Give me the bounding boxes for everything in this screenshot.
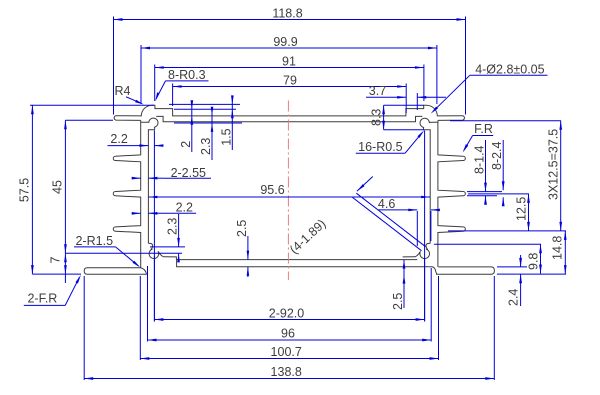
dimension 4.6 extension lines bbox=[417, 211, 431, 246]
svg-text:2.3: 2.3 bbox=[199, 138, 213, 155]
dimension 12.5 bbox=[515, 194, 530, 231]
svg-text:2-F.R: 2-F.R bbox=[27, 292, 57, 306]
dimension 4.6 bbox=[378, 197, 440, 211]
dimension 9.8 bbox=[527, 244, 542, 273]
dimension (4-1.89) diagonal leader bbox=[287, 177, 426, 257]
dimension 8-2.4 bbox=[490, 140, 504, 206]
dimension 79 extension lines bbox=[173, 84, 407, 114]
extension line left lip to 2-92 dimension bbox=[153, 131, 155, 322]
dimension 2.3 lower extension line bbox=[150, 246, 185, 248]
svg-text:F.R: F.R bbox=[474, 122, 493, 136]
dimension 3.7 extension line bbox=[416, 93, 418, 110]
svg-text:118.8: 118.8 bbox=[272, 7, 302, 21]
svg-text:16-R0.5: 16-R0.5 bbox=[358, 140, 403, 154]
left screw boss C-notch and wall inner face bbox=[141, 118, 158, 243]
svg-text:8-2.4: 8-2.4 bbox=[490, 141, 504, 170]
right bottom hook with ball and plate ledge bbox=[403, 243, 431, 258]
label 4-dia 2.8 with leader bbox=[431, 62, 548, 114]
svg-text:3.7: 3.7 bbox=[369, 84, 386, 98]
dimension 3X12.5=37.5 extension lines bbox=[448, 121, 566, 231]
dimension 2.5 right bbox=[391, 260, 405, 310]
svg-text:4.6: 4.6 bbox=[378, 197, 395, 211]
dimension 1.5 bbox=[220, 95, 234, 150]
vertical centerline bbox=[287, 101, 289, 281]
svg-text:9.8: 9.8 bbox=[527, 253, 541, 270]
svg-text:8-R0.3: 8-R0.3 bbox=[168, 68, 206, 82]
dimension 45 extension lines bbox=[65, 120, 182, 253]
dimension 96 extension lines bbox=[148, 266, 432, 342]
profile top wall inner surface with jogs bbox=[156, 116, 422, 121]
dimension 91 bbox=[155, 55, 424, 69]
dimension 8.3 extension lines bbox=[384, 105, 424, 130]
dimension 8-1.4 extension lines bbox=[467, 192, 502, 196]
dimension 57.5 bbox=[17, 105, 33, 274]
label F.R with leader bbox=[463, 122, 494, 153]
svg-text:2.4: 2.4 bbox=[507, 289, 521, 306]
svg-text:7: 7 bbox=[48, 256, 62, 263]
bottom plate bbox=[177, 260, 437, 274]
svg-text:14.8: 14.8 bbox=[550, 236, 564, 260]
svg-text:79: 79 bbox=[283, 74, 297, 88]
dimension 95.6 bbox=[148, 183, 430, 198]
dimension 2-2.55 bbox=[132, 166, 211, 180]
extension line from wall inner surface bbox=[174, 122, 242, 124]
dimension 2.5 center bbox=[235, 220, 249, 277]
dimension 100.7 extension lines bbox=[140, 276, 438, 360]
svg-text:2.5: 2.5 bbox=[391, 293, 405, 310]
extension line from corner step bbox=[174, 108, 236, 110]
left bottom flange bbox=[84, 268, 146, 275]
dimension 9.8 extension line bbox=[434, 243, 541, 245]
svg-text:138.8: 138.8 bbox=[271, 365, 302, 379]
svg-text:2.5: 2.5 bbox=[235, 220, 249, 237]
dimension 2.2 lower-left bbox=[132, 201, 196, 215]
svg-text:3X12.5=37.5: 3X12.5=37.5 bbox=[547, 129, 561, 200]
dimension 2.2 upper-left bbox=[108, 132, 164, 147]
dimension 91 extension lines bbox=[155, 65, 424, 102]
svg-text:2.3: 2.3 bbox=[166, 218, 180, 235]
profile top wall with corner ridges and side tongues bbox=[114, 105, 464, 120]
svg-text:95.6: 95.6 bbox=[260, 183, 284, 197]
dimension 2-92.0 bbox=[154, 307, 424, 321]
label 2-R1.5 with leader bbox=[74, 234, 140, 267]
svg-text:4-Ø2.8±0.05: 4-Ø2.8±0.05 bbox=[475, 62, 544, 76]
svg-text:57.5: 57.5 bbox=[17, 178, 31, 202]
dimension 2.4 bbox=[507, 255, 522, 306]
label R4 with leader bbox=[115, 84, 144, 105]
profile right wall with 3 heatsink fins and right bottom flange bbox=[438, 120, 465, 267]
dimension 14.8 extension line bbox=[497, 273, 566, 275]
dimension 99.9 extension lines bbox=[141, 45, 437, 104]
dimension 138.8 extension lines bbox=[84, 276, 494, 380]
dimension 99.9 bbox=[141, 35, 437, 49]
right screw boss C-notch and wall inner face bbox=[420, 118, 438, 243]
dimension 45 bbox=[50, 120, 66, 253]
svg-text:8-1.4: 8-1.4 bbox=[473, 145, 487, 174]
label 2-F.R with leader bbox=[24, 275, 81, 306]
label 8-R0.3 with leader bbox=[155, 68, 208, 101]
dimension 79 bbox=[173, 74, 407, 88]
profile left wall with 3 heatsink fins and left bottom flange bbox=[113, 120, 140, 267]
dimension 118.8 bbox=[114, 7, 466, 21]
dimension 2.4 extension line bbox=[497, 266, 527, 268]
svg-text:12.5: 12.5 bbox=[515, 197, 529, 221]
dimension 14.8 bbox=[550, 231, 566, 274]
right bottom flange bbox=[436, 267, 494, 274]
dimension 100.7 bbox=[140, 345, 438, 360]
dimension 3.7 bbox=[366, 84, 446, 99]
left bottom hook with ball and plate ledge bbox=[148, 243, 176, 259]
extension line right lip to 2-92 dimension bbox=[424, 131, 426, 322]
svg-text:100.7: 100.7 bbox=[271, 345, 302, 359]
dimension 3X12.5=37.5 bbox=[547, 121, 562, 231]
dimension 96 bbox=[148, 327, 432, 342]
svg-text:2: 2 bbox=[179, 141, 193, 148]
dimension 2 bbox=[179, 100, 193, 152]
svg-text:91: 91 bbox=[282, 55, 296, 69]
svg-text:2-R1.5: 2-R1.5 bbox=[76, 234, 114, 248]
dimension 118.8 extension lines bbox=[114, 17, 466, 115]
dimension 8.3 bbox=[370, 105, 385, 130]
dimension 8-1.4 bbox=[473, 140, 487, 205]
svg-text:99.9: 99.9 bbox=[273, 35, 297, 49]
dimension 2.3 bbox=[199, 107, 213, 160]
svg-text:2.2: 2.2 bbox=[176, 201, 193, 215]
svg-text:2.2: 2.2 bbox=[110, 132, 127, 146]
svg-text:R4: R4 bbox=[115, 84, 131, 98]
dimension 138.8 bbox=[84, 365, 494, 380]
dimension 12.5 extension line bbox=[468, 193, 529, 195]
dimension 7 bbox=[48, 253, 66, 283]
dimension 2.3 lower bbox=[166, 214, 180, 262]
label 16-R0.5 with leader bbox=[356, 130, 424, 154]
svg-text:96: 96 bbox=[281, 327, 295, 341]
extension line from corner ridge top bbox=[169, 103, 240, 105]
svg-text:8.3: 8.3 bbox=[370, 109, 384, 126]
svg-text:1.5: 1.5 bbox=[220, 128, 234, 145]
dimension 57.5 extension lines bbox=[30, 105, 154, 274]
dimension 2-92.0 extension lines bbox=[154, 256, 424, 322]
svg-text:45: 45 bbox=[50, 180, 64, 194]
svg-text:2-92.0: 2-92.0 bbox=[269, 307, 304, 321]
